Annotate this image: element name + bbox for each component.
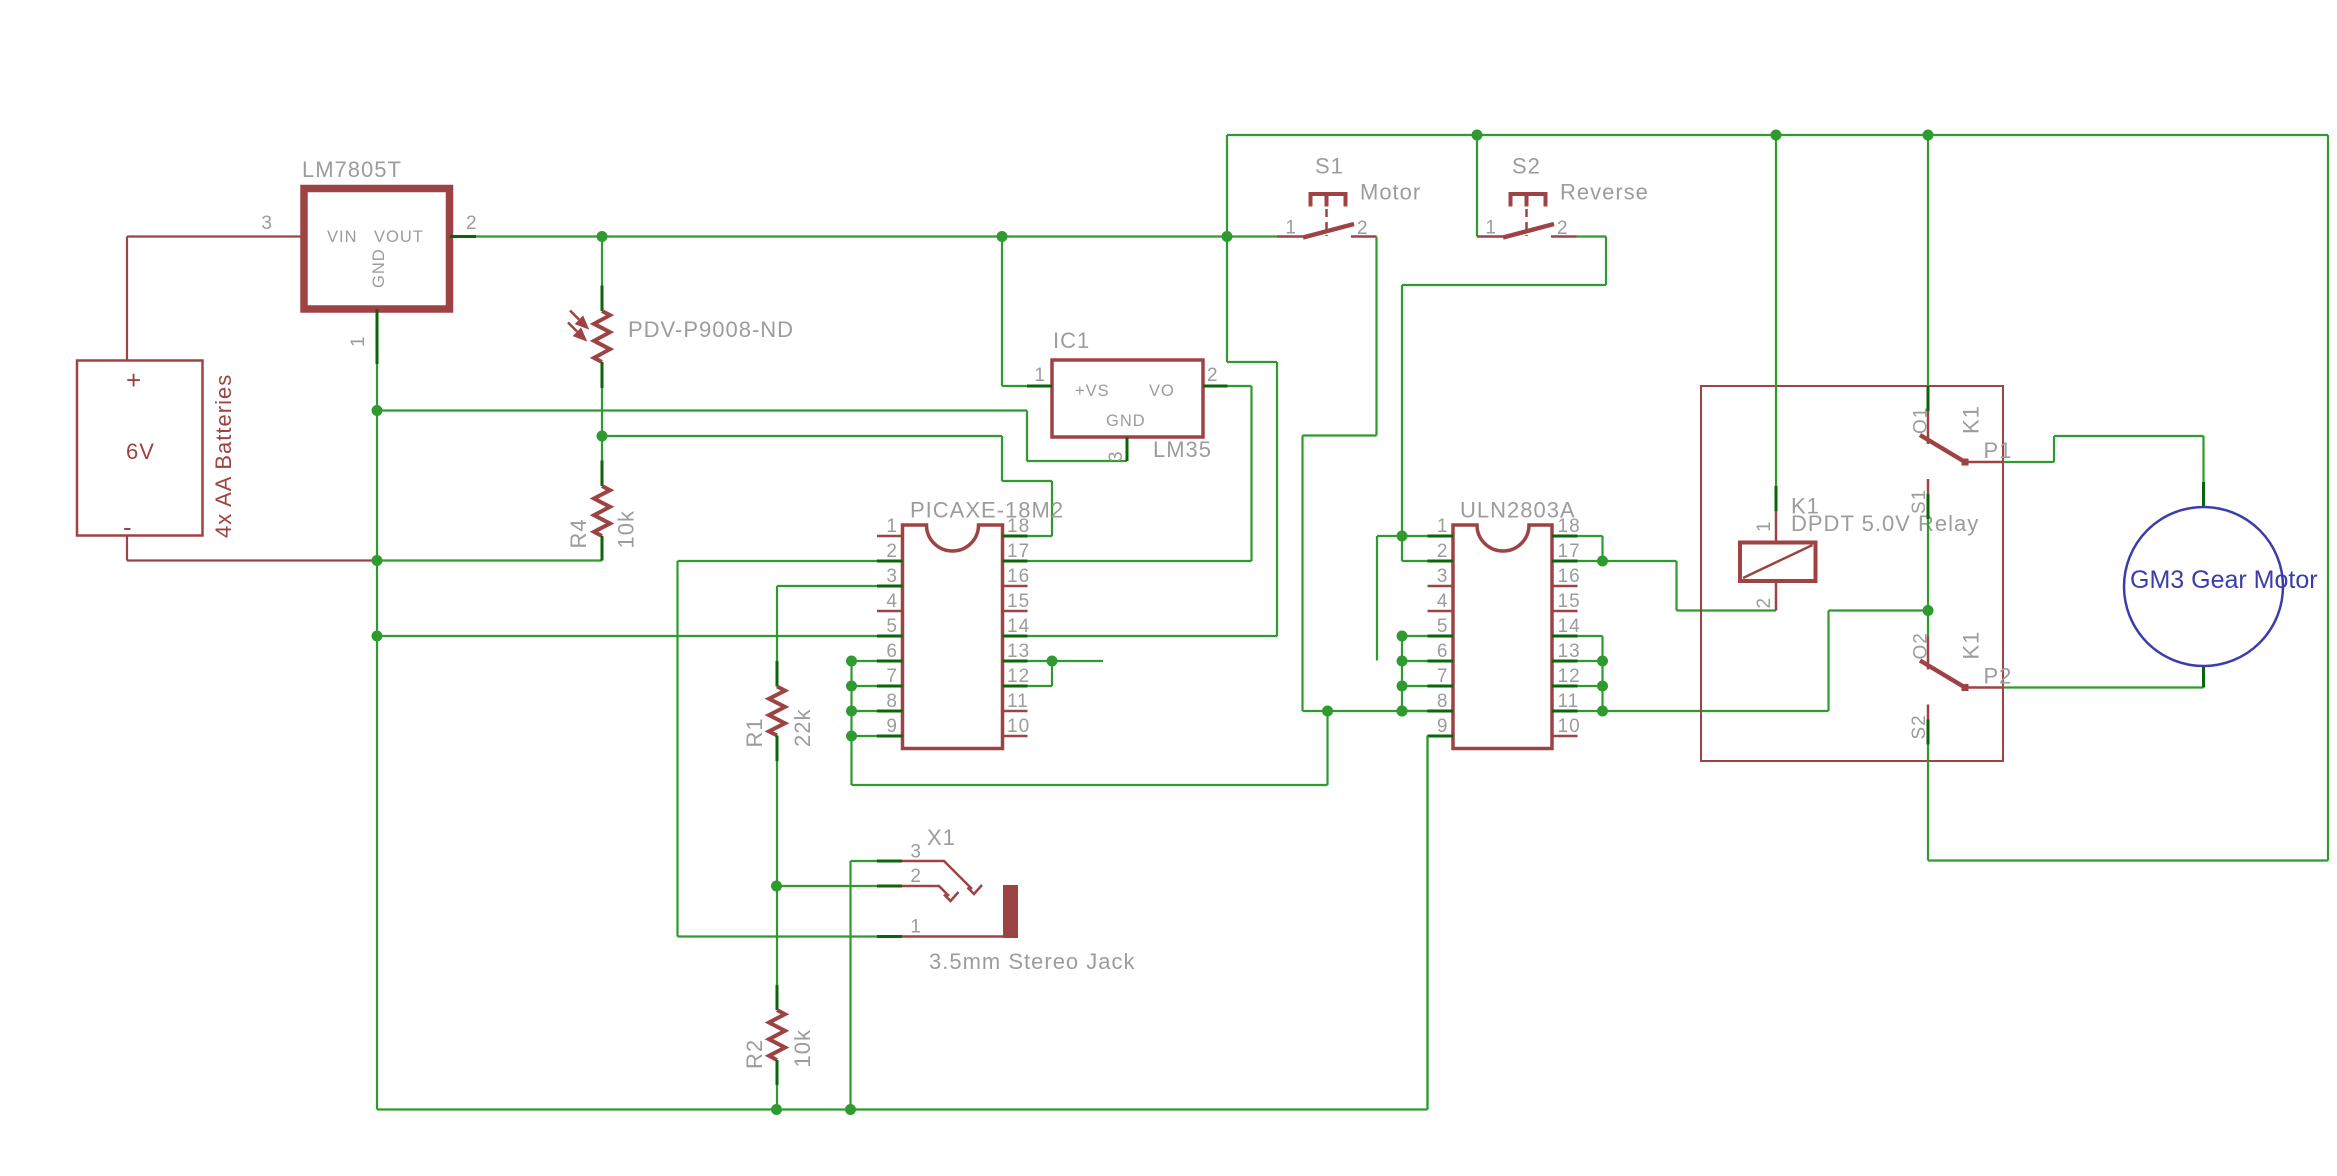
svg-text:7: 7 <box>886 666 898 687</box>
X1 pin 1 <box>902 935 1003 938</box>
svg-text:VO: VO <box>1149 382 1175 400</box>
PICAXE pin 3 stub <box>877 585 903 588</box>
svg-text:14: 14 <box>1007 616 1030 637</box>
svg-text:3: 3 <box>1437 566 1449 587</box>
svg-text:13: 13 <box>1558 641 1581 662</box>
svg-text:1: 1 <box>886 516 898 537</box>
PICAXE pin 2 stub <box>877 560 903 563</box>
wire PDV to R4 junction <box>601 388 603 436</box>
junction PDV/R4/pin18 <box>597 431 608 442</box>
junction top rail contact O1 <box>1923 130 1934 141</box>
svg-text:16: 16 <box>1558 566 1581 587</box>
wire pin11 net right <box>1603 710 1829 712</box>
junction ULN bus pin7 <box>1397 681 1408 692</box>
wire R1 to X1 pin2 junction <box>776 761 778 886</box>
junction GND battery minus <box>372 555 383 566</box>
wire PICAXE pin13 right <box>1028 660 1104 662</box>
wire ULN pin11 right <box>1578 710 1603 712</box>
svg-text:8: 8 <box>886 691 898 712</box>
ULN pin 9 stub <box>1428 735 1454 738</box>
wire O1 from rail <box>1927 135 1929 386</box>
S1 throw stub green <box>1927 494 1930 519</box>
svg-text:1: 1 <box>1034 365 1046 386</box>
wire X1 pin3 to GND rail <box>849 861 851 1110</box>
connector X1 3.5mm jack sleeve <box>1003 885 1018 938</box>
wire PICAXE pin3 down to R1 <box>776 586 778 661</box>
svg-text:S1: S1 <box>1909 489 1930 514</box>
wire pin12 up to pin13 <box>1051 661 1053 686</box>
svg-text:2: 2 <box>910 866 922 887</box>
wire PICAXE pin7 to bus <box>852 685 878 687</box>
wire S2 net left <box>1402 284 1606 286</box>
wire PICAXE pins6-9 bus vertical <box>850 661 852 785</box>
contact 2 pin P2 <box>1965 686 2003 689</box>
contact 2 arm <box>1920 661 1965 688</box>
junction GND rail y636 <box>372 631 383 642</box>
coil pin 2 <box>1775 581 1778 611</box>
IC1 pin2 stub <box>1203 385 1228 388</box>
contact 1 pole O1 <box>1927 411 1930 444</box>
wire jack pin1 horizontal <box>678 935 903 937</box>
PICAXE pin 8 stub <box>877 710 903 713</box>
wire X1 pin3 left <box>851 860 878 862</box>
svg-text:P1: P1 <box>1984 438 2013 463</box>
resistor R2 10k <box>769 1010 785 1060</box>
switch S2 button bracket <box>1511 194 1546 207</box>
wire S1 throw down <box>1927 519 1929 611</box>
wire S1 net to ULN pin8 rail <box>1303 710 1428 712</box>
wire VOUT rail <box>476 235 1277 237</box>
svg-text:IC1: IC1 <box>1053 328 1090 353</box>
svg-text:DPDT 5.0V Relay: DPDT 5.0V Relay <box>1791 511 1979 536</box>
wire PICAXE pin3 left <box>777 585 877 587</box>
wire bottom GND rail <box>377 1108 1428 1110</box>
svg-text:3: 3 <box>910 842 922 863</box>
junction top rail S2 <box>1472 130 1483 141</box>
svg-text:2: 2 <box>1437 541 1449 562</box>
junction bus pin7 <box>846 681 857 692</box>
wire ULN pin9 down <box>1426 736 1428 1110</box>
contact 2 pole O2 <box>1927 637 1930 670</box>
wire P1 to motor 3 <box>2054 435 2204 437</box>
wire PICAXE pin14 right <box>1028 635 1278 637</box>
svg-text:3: 3 <box>261 213 273 234</box>
wire PICAXE pin2 down to jack pin1 <box>676 561 678 937</box>
wire P2 to motor <box>2003 686 2204 688</box>
svg-text:22k: 22k <box>790 709 815 747</box>
svg-text:X1: X1 <box>927 825 956 850</box>
voltage regulator LM7805T <box>304 189 450 310</box>
wire ULN pin1 stub left <box>1377 535 1402 537</box>
PDV light arrows <box>568 311 587 340</box>
PICAXE pin 5 stub <box>877 635 903 638</box>
relay K1 outline box <box>1701 386 2003 761</box>
svg-text:S2: S2 <box>1909 714 1930 739</box>
R2 top stub <box>776 985 779 1010</box>
wire ULN pin12 right <box>1578 685 1603 687</box>
wire pin18 net right <box>1002 480 1052 482</box>
wire P1 to motor 2 <box>2053 436 2055 462</box>
junction top rail relay coil <box>1771 130 1782 141</box>
PICAXE pin 18 stub <box>1003 535 1028 538</box>
junction VOUT/PDV <box>597 231 608 242</box>
ULN pin 1 stub <box>1428 535 1454 538</box>
svg-text:K1: K1 <box>1959 405 1984 434</box>
wire GND to LM35 GND <box>377 409 1027 411</box>
wire P1 to motor 1 <box>2003 461 2054 463</box>
wire rail drop to pin14 net <box>1226 237 1228 363</box>
wire ULN pin17 right <box>1578 560 1603 562</box>
wire LM35 VO right <box>1228 385 1252 387</box>
wire S1 net left <box>1303 434 1377 436</box>
R4 top stub <box>601 461 604 487</box>
wire GND to LM35 pin3 <box>1027 460 1127 462</box>
junction ULN pin1 <box>1397 531 1408 542</box>
X1 pin2 stub <box>877 885 902 888</box>
R2 bottom stub <box>776 1060 779 1085</box>
svg-text:R4: R4 <box>566 518 591 548</box>
wire S1 net down <box>1301 436 1303 712</box>
S2 throw stub green <box>1927 720 1930 745</box>
switch S2 dashed stem <box>1525 209 1528 236</box>
R4 bottom stub <box>601 536 604 561</box>
wire LM35 VO down <box>1250 386 1252 561</box>
wire S2 net down1 <box>1605 237 1607 286</box>
S1 pin 1 contact <box>1277 235 1303 238</box>
svg-text:VOUT: VOUT <box>374 228 424 246</box>
battery 6V box <box>77 361 203 536</box>
LM7805 GND pin stub <box>376 309 379 364</box>
X1 pin1 stub <box>877 935 902 938</box>
R1 bottom stub <box>776 736 779 762</box>
ULN pin 15 stub <box>1552 610 1578 613</box>
svg-text:S2: S2 <box>1512 154 1541 179</box>
svg-text:9: 9 <box>886 716 898 737</box>
svg-text:3.5mm Stereo Jack: 3.5mm Stereo Jack <box>929 949 1136 974</box>
wire ULN pin2 <box>1402 560 1428 562</box>
wire pin18 net horizontal <box>602 435 1002 437</box>
wire GND vertical left <box>376 411 378 1110</box>
coil pin1 stub <box>1775 486 1778 511</box>
svg-text:11: 11 <box>1558 691 1580 712</box>
junction ULN bus pin6 <box>1397 656 1408 667</box>
junction R2/GND rail <box>771 1104 782 1115</box>
ULN pin 8 stub <box>1428 710 1454 713</box>
wire ULN pins14-11 bus <box>1601 636 1603 711</box>
PICAXE pin 13 stub <box>1003 660 1028 663</box>
wire GND rail to PICAXE pin5 <box>377 635 877 637</box>
svg-text:LM35: LM35 <box>1153 437 1212 462</box>
wire ULN pin7 to bus <box>1402 685 1428 687</box>
wire P1 to motor 4 <box>2202 436 2204 482</box>
PICAXE pin 14 stub <box>1003 635 1028 638</box>
junction ULN right bus pin13 <box>1597 656 1608 667</box>
wire battery minus to GND junction <box>126 536 128 561</box>
wire S2 throw down <box>1927 745 1929 861</box>
svg-text:17: 17 <box>1007 541 1030 562</box>
svg-text:4: 4 <box>1437 591 1449 612</box>
svg-text:12: 12 <box>1558 666 1581 687</box>
motor GM3 circle <box>2124 507 2283 666</box>
svg-text:+: + <box>126 365 142 395</box>
wire ULN pin2 drop <box>1401 536 1403 561</box>
ULN pin 17 stub <box>1552 560 1578 563</box>
svg-text:8: 8 <box>1437 691 1449 712</box>
junction GND A <box>372 405 383 416</box>
switch S1 button bracket <box>1311 194 1346 207</box>
wire GND corner down <box>1026 411 1028 462</box>
junction contact throws <box>1923 605 1934 616</box>
svg-text:Motor: Motor <box>1360 180 1421 205</box>
PICAXE pin 16 stub <box>1003 585 1028 588</box>
PICAXE pin 1 stub <box>877 535 903 538</box>
temperature sensor IC1 LM35 <box>1052 360 1203 437</box>
photoresistor PDV-P9008-ND <box>594 311 610 362</box>
junction ULN right bus pin11 <box>1597 706 1608 717</box>
PDV pin2 stub <box>601 362 604 388</box>
svg-text:1: 1 <box>910 917 922 938</box>
wire S2 pin1 from rail <box>1476 135 1478 237</box>
S2 pin 2 contact <box>1551 235 1577 238</box>
svg-text:5: 5 <box>1437 616 1449 637</box>
PICAXE pin 12 stub <box>1003 685 1028 688</box>
R1 top stub <box>776 661 779 687</box>
contact 1 arm <box>1920 435 1965 462</box>
svg-text:2: 2 <box>466 213 478 234</box>
wire ULN pin18 right <box>1578 535 1603 537</box>
ULN pin 2 stub <box>1428 560 1454 563</box>
PICAXE pin 4 stub <box>877 610 903 613</box>
PICAXE pin 9 stub <box>877 735 903 738</box>
wire junction to X1 pin2 <box>777 885 903 887</box>
O1 pin stub green <box>1927 386 1930 411</box>
contact 2 pivot <box>1962 684 1969 691</box>
svg-text:3: 3 <box>1106 450 1127 462</box>
junction bus pin9 <box>846 731 857 742</box>
wire ULN pin13 right <box>1578 660 1603 662</box>
svg-text:9: 9 <box>1437 716 1449 737</box>
svg-text:13: 13 <box>1007 641 1030 662</box>
svg-text:14: 14 <box>1558 616 1581 637</box>
svg-text:5: 5 <box>886 616 898 637</box>
ULN pin 12 stub <box>1552 685 1578 688</box>
S2 arm <box>1503 224 1554 238</box>
wire pin17 net to coil pin2 <box>1677 609 1777 611</box>
wire LM35 +VS horizontal <box>1002 385 1027 387</box>
svg-text:2: 2 <box>1207 365 1219 386</box>
wire pin11 net to contact junction <box>1829 609 1929 611</box>
svg-text:10k: 10k <box>790 1029 815 1067</box>
svg-text:1: 1 <box>1437 516 1449 537</box>
wire pin11 net up <box>1827 611 1829 712</box>
svg-text:6V: 6V <box>126 439 155 464</box>
contact 1 pivot <box>1962 459 1969 466</box>
svg-text:6: 6 <box>886 641 898 662</box>
svg-text:2: 2 <box>886 541 898 562</box>
wire right side bottom <box>1928 859 2328 861</box>
junction X1 pin3/GND rail <box>845 1104 856 1115</box>
wire top +V rail <box>1227 134 2328 136</box>
svg-text:4: 4 <box>886 591 898 612</box>
wire R2 to GND rail <box>776 1085 778 1110</box>
S2 pin 1 contact <box>1477 235 1503 238</box>
svg-text:16: 16 <box>1007 566 1030 587</box>
junction ULN bus pin5 <box>1397 631 1408 642</box>
ULN pin 10 stub <box>1552 735 1578 738</box>
contact 1 pin P1 <box>1965 461 2003 464</box>
wire S1 pin2 down <box>1375 237 1377 436</box>
LM7805 VOUT pin stub <box>450 235 476 238</box>
svg-text:10: 10 <box>1558 716 1581 737</box>
svg-text:P2: P2 <box>1984 664 2013 689</box>
PICAXE pin 6 stub <box>877 660 903 663</box>
ULN pin 6 stub <box>1428 660 1454 663</box>
wire pin14 top horizontal <box>1227 361 1277 363</box>
wire pin18 net down1 <box>1001 436 1003 481</box>
wire coil pin1 from rail <box>1775 135 1777 486</box>
PICAXE pin 10 stub <box>1003 735 1028 738</box>
wire PICAXE pin12 right <box>1028 685 1053 687</box>
junction VOUT rail / pin14 drop <box>1222 231 1233 242</box>
IC1 pin1 stub <box>1027 385 1052 388</box>
junction ULN pin17 <box>1597 556 1608 567</box>
wire junction down to R2 <box>776 886 778 985</box>
ULN pin 13 stub <box>1552 660 1578 663</box>
wire PICAXE pin2 left <box>678 560 878 562</box>
svg-text:4x AA Batteries: 4x AA Batteries <box>211 374 236 538</box>
svg-text:GND: GND <box>370 248 388 288</box>
svg-text:R1: R1 <box>742 717 767 747</box>
svg-text:O1: O1 <box>1911 407 1932 434</box>
wire ULN pin1 <box>1402 535 1428 537</box>
ULN pin 11 stub <box>1552 710 1578 713</box>
svg-text:1: 1 <box>1754 520 1775 532</box>
junction VOUT/LM35 +VS <box>997 231 1008 242</box>
svg-text:O2: O2 <box>1911 632 1932 659</box>
junction ULN bus pin8 <box>1397 706 1408 717</box>
wire pin18 down to pin17 <box>1601 536 1603 561</box>
wire bus up to ULN pin8 rail <box>1326 711 1328 785</box>
svg-text:15: 15 <box>1558 591 1581 612</box>
wire O2 from junction <box>1927 611 1929 637</box>
wire PICAXE pin8 to bus <box>852 710 878 712</box>
svg-text:S1: S1 <box>1315 154 1344 179</box>
motor top pin stub <box>2202 482 2205 507</box>
svg-text:2: 2 <box>1754 597 1775 609</box>
X1 pin 2 contact <box>902 886 949 896</box>
wire S2 net down2 <box>1401 285 1403 536</box>
svg-text:10k: 10k <box>614 510 639 548</box>
junction pin13/pin12 <box>1047 656 1058 667</box>
wire PICAXE pin6 to bus <box>852 660 878 662</box>
IC1 pin3 stub <box>1126 437 1129 461</box>
ULN pin 3 stub <box>1428 585 1454 588</box>
wire pin14 up <box>1276 362 1278 636</box>
wire top rail left drop <box>1226 135 1228 237</box>
svg-text:15: 15 <box>1007 591 1030 612</box>
svg-text:7: 7 <box>1437 666 1449 687</box>
junction ULN right bus pin12 <box>1597 681 1608 692</box>
X1 pin3 stub <box>877 860 902 863</box>
svg-text:11: 11 <box>1007 691 1029 712</box>
svg-text:Reverse: Reverse <box>1560 180 1649 205</box>
wire top rail right drop <box>2327 135 2329 861</box>
wire bus to ULN side <box>852 784 1328 786</box>
ULN pin 14 stub <box>1552 635 1578 638</box>
resistor R4 10k <box>594 486 610 536</box>
svg-text:1: 1 <box>348 335 369 347</box>
ULN pin 4 stub <box>1428 610 1454 613</box>
svg-text:GM3 Gear Motor: GM3 Gear Motor <box>2130 566 2318 594</box>
ULN pin 16 stub <box>1552 585 1578 588</box>
IC PICAXE-18M2 body <box>903 525 1003 749</box>
switch S1 dashed stem <box>1325 209 1328 236</box>
coil pin 1 <box>1775 511 1778 543</box>
svg-text:17: 17 <box>1558 541 1581 562</box>
svg-text:18: 18 <box>1007 516 1030 537</box>
svg-text:R2: R2 <box>742 1039 767 1069</box>
wire PDV top <box>601 237 603 286</box>
junction bus pin6 <box>846 656 857 667</box>
wire LM7805 GND down <box>376 364 378 411</box>
wire rail to R4 bottom <box>377 559 602 561</box>
PDV pin1 stub <box>601 286 604 312</box>
wire ULN pin8 to bus <box>1402 710 1428 712</box>
svg-text:VIN: VIN <box>327 228 358 246</box>
wire dead-end stub <box>1376 536 1378 661</box>
relay coil diagonal <box>1743 545 1813 578</box>
wire pin17 net down <box>1675 561 1677 611</box>
svg-text:PDV-P9008-ND: PDV-P9008-ND <box>628 317 794 342</box>
wire pin18 net down2 <box>1051 481 1053 536</box>
wire battery plus to LM7805 VIN <box>126 237 128 361</box>
PICAXE pin 15 stub <box>1003 610 1028 613</box>
svg-text:6: 6 <box>1437 641 1449 662</box>
svg-text:3: 3 <box>886 566 898 587</box>
wire PICAXE pin9 to bus <box>852 735 878 737</box>
wire ULN pin5 to bus <box>1402 635 1428 637</box>
wire GND rail up to ULN pin9 <box>1426 736 1428 1110</box>
junction bus pin8 <box>846 706 857 717</box>
wire junction to R4 <box>601 436 603 461</box>
IC ULN2803A body <box>1453 525 1552 749</box>
motor bottom pin stub <box>2202 666 2205 688</box>
S1 pin 2 contact <box>1351 235 1377 238</box>
PICAXE pin 7 stub <box>877 685 903 688</box>
wire ULN pin14 right <box>1578 635 1603 637</box>
ULN pin 5 stub <box>1428 635 1454 638</box>
junction pin8 rail / PICAXE bus <box>1322 706 1333 717</box>
svg-text:+VS: +VS <box>1075 382 1110 400</box>
wire S2 pin2 right <box>1577 235 1607 237</box>
PICAXE pin 11 stub <box>1003 710 1028 713</box>
ULN pin 7 stub <box>1428 685 1454 688</box>
svg-text:18: 18 <box>1558 516 1581 537</box>
PICAXE pin 17 stub <box>1003 560 1028 563</box>
svg-text:10: 10 <box>1007 716 1030 737</box>
svg-text:GND: GND <box>1106 412 1146 430</box>
resistor R1 22k <box>769 687 785 736</box>
X1 pin 3 contact <box>902 861 972 889</box>
svg-text:K1: K1 <box>1959 631 1984 660</box>
wire pin18 net into pin <box>1028 535 1053 537</box>
wire ULN pins5-8 bus <box>1401 636 1403 711</box>
wire pin17 net right <box>1603 560 1677 562</box>
wire LM35 VO to PICAXE pin17 <box>1028 560 1252 562</box>
S1 arm <box>1303 224 1354 238</box>
junction pin8 rail / ULN bus <box>1397 706 1408 717</box>
svg-text:PICAXE-18M2: PICAXE-18M2 <box>910 498 1064 523</box>
